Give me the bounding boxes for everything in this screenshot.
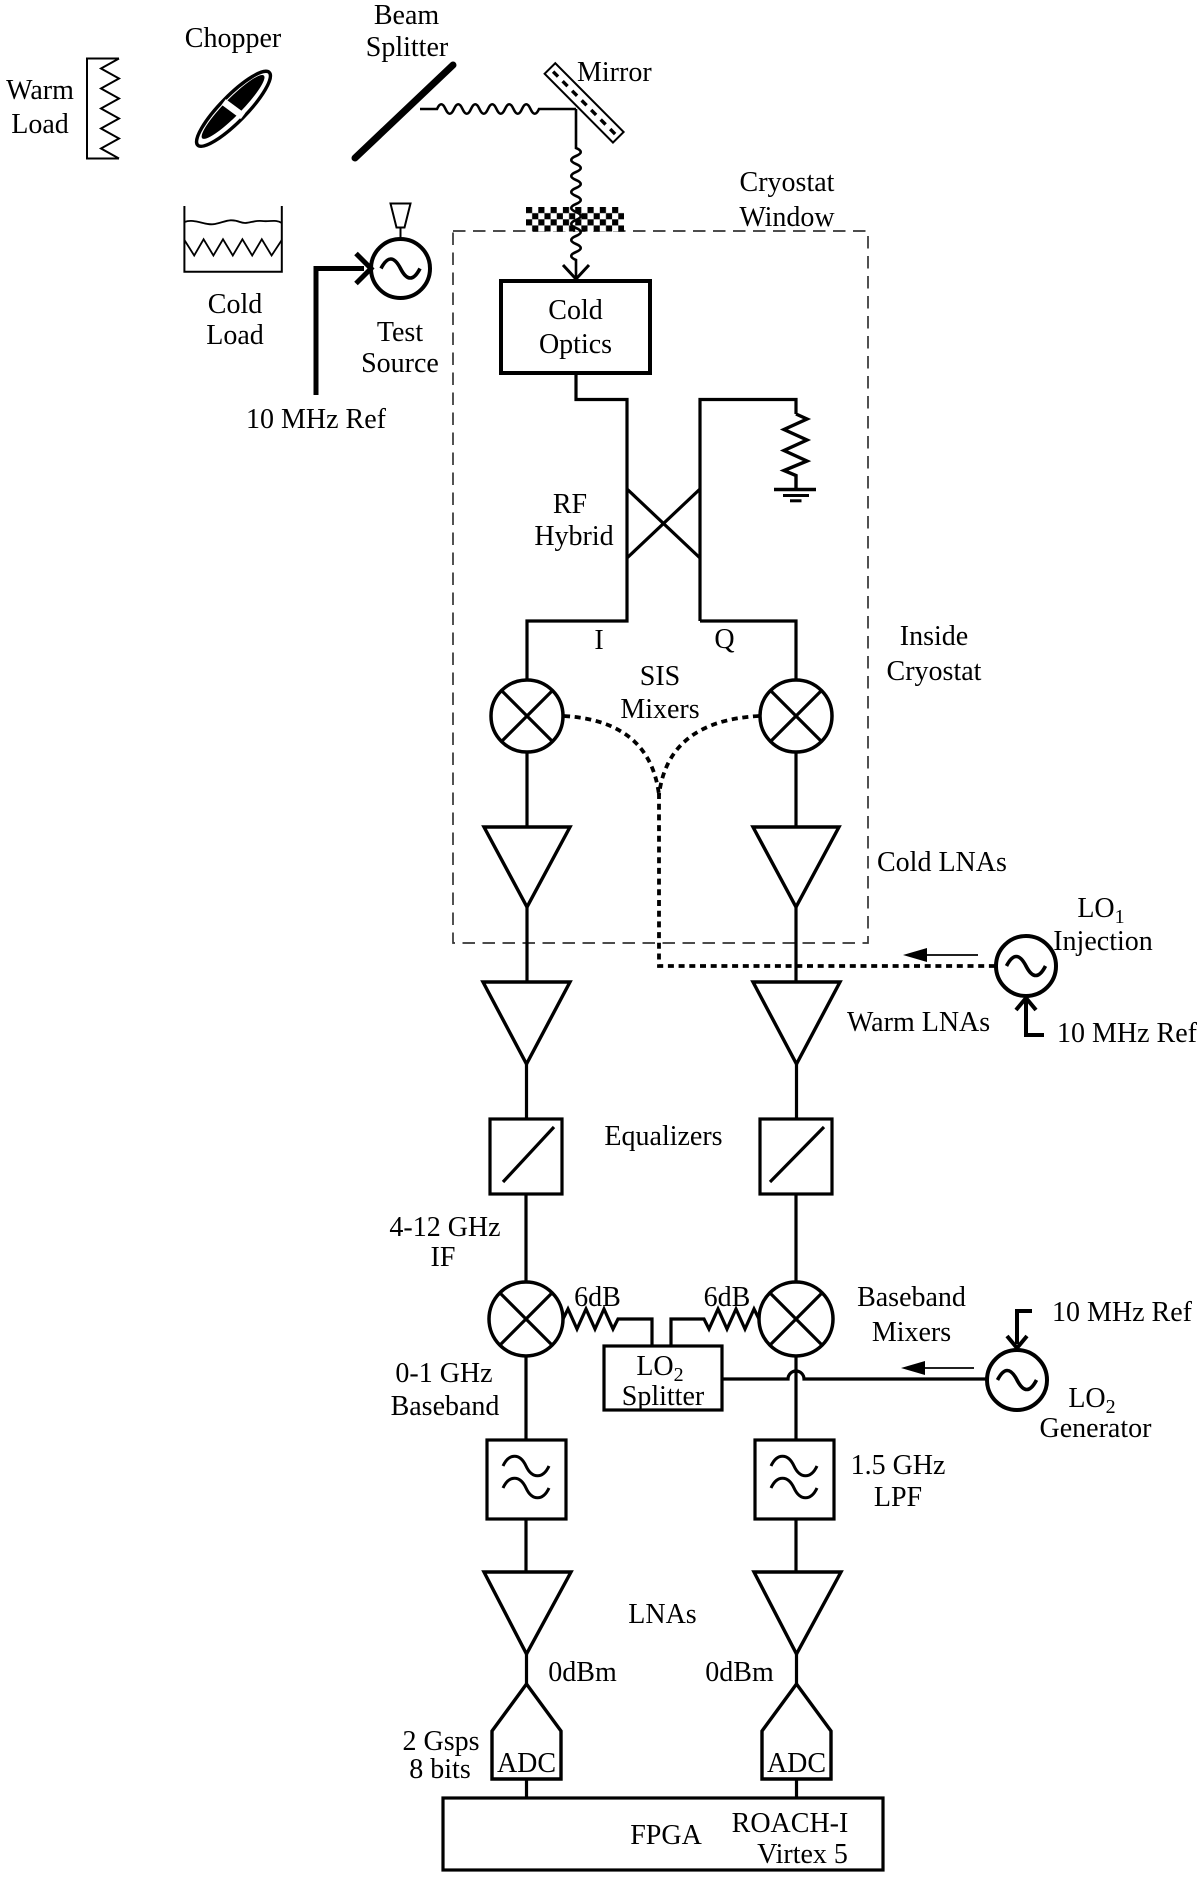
svg-text:6dB: 6dB [704,1282,751,1313]
svg-text:I: I [594,625,603,656]
svg-text:Mirror: Mirror [577,57,652,88]
svg-text:Load: Load [206,320,264,351]
svg-text:10 MHz Ref: 10 MHz Ref [1052,1297,1193,1328]
svg-text:Test: Test [377,317,423,348]
svg-text:1.5 GHz: 1.5 GHz [851,1450,946,1481]
svg-text:LPF: LPF [874,1482,922,1513]
svg-text:0-1 GHz: 0-1 GHz [395,1358,492,1389]
svg-text:Mixers: Mixers [872,1317,951,1348]
svg-text:RF: RF [553,489,587,520]
svg-text:Generator: Generator [1040,1413,1153,1444]
svg-text:Baseband: Baseband [857,1282,966,1313]
svg-text:Virtex 5: Virtex 5 [757,1839,848,1870]
svg-text:Splitter: Splitter [622,1381,705,1412]
svg-text:IF: IF [431,1242,456,1273]
svg-text:Q: Q [714,624,734,655]
svg-text:ROACH-I: ROACH-I [732,1808,849,1839]
svg-text:Optics: Optics [539,329,612,360]
svg-text:Splitter: Splitter [366,32,449,63]
svg-text:10 MHz Ref: 10 MHz Ref [246,404,387,435]
svg-text:Equalizers: Equalizers [604,1121,722,1152]
svg-text:Warm: Warm [6,75,74,106]
svg-text:Source: Source [361,348,439,379]
svg-text:ADC: ADC [497,1748,556,1779]
svg-text:Cryostat: Cryostat [740,167,835,198]
svg-text:FPGA: FPGA [630,1820,702,1851]
svg-text:Cold: Cold [208,289,262,320]
svg-text:Mixers: Mixers [620,694,699,725]
svg-text:SIS: SIS [640,661,680,692]
svg-text:Injection: Injection [1053,926,1153,957]
svg-text:Cold LNAs: Cold LNAs [877,847,1007,878]
svg-text:8 bits: 8 bits [409,1754,470,1785]
svg-text:0dBm: 0dBm [705,1657,774,1688]
svg-text:Cold: Cold [548,295,602,326]
svg-text:0dBm: 0dBm [548,1657,617,1688]
svg-text:LNAs: LNAs [628,1599,696,1630]
svg-text:Warm LNAs: Warm LNAs [847,1007,990,1038]
svg-text:Cryostat: Cryostat [887,656,982,687]
svg-text:6dB: 6dB [574,1282,621,1313]
svg-text:Hybrid: Hybrid [534,521,613,552]
svg-text:10 MHz Ref: 10 MHz Ref [1057,1018,1198,1049]
svg-text:Window: Window [739,202,835,233]
svg-text:Baseband: Baseband [391,1391,500,1422]
svg-text:ADC: ADC [767,1748,826,1779]
svg-text:Beam: Beam [374,0,440,31]
svg-text:Inside: Inside [900,621,968,652]
svg-text:Chopper: Chopper [185,23,282,54]
svg-text:2 Gsps: 2 Gsps [402,1726,479,1757]
svg-text:4-12 GHz: 4-12 GHz [389,1212,500,1243]
svg-text:Load: Load [11,109,69,140]
